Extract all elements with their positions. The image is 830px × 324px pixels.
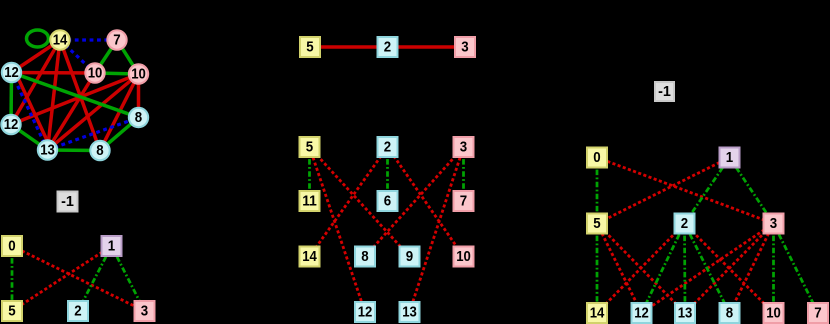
svg-text:3: 3 <box>460 139 467 156</box>
edge 10a-10b green <box>95 73 139 74</box>
rtree node 3 <box>764 214 784 234</box>
ltree node 1 <box>102 236 122 256</box>
ltree node 3 <box>135 301 155 321</box>
edge 10b-13 red <box>48 74 139 150</box>
chain node 2 <box>378 37 398 57</box>
edge 3-7 green dashdot <box>462 147 465 201</box>
svg-text:5: 5 <box>306 39 313 56</box>
edge 1-3 green dashdot <box>730 158 774 224</box>
rtree node 5 <box>587 214 607 234</box>
svg-text:2: 2 <box>384 139 391 156</box>
svg-text:-1: -1 <box>61 193 74 210</box>
svg-text:12: 12 <box>4 64 19 81</box>
edge 3-7 green dashdot <box>774 224 819 314</box>
edge 3-8 red dotted <box>730 224 774 314</box>
edge 14-12a red <box>12 40 61 73</box>
graph node 12 top <box>2 63 21 82</box>
svg-text:3: 3 <box>770 215 777 232</box>
edge 2-10 red dotted <box>685 224 774 314</box>
mtree node 12 <box>355 302 375 322</box>
ltree node 5 <box>2 301 22 321</box>
graph node 7 <box>107 30 126 49</box>
edge 5-12 red dotted <box>310 147 366 312</box>
edge 10a-13 red <box>48 73 96 150</box>
edge 3-8 red dotted <box>365 147 464 257</box>
rtree node 0 <box>587 148 607 168</box>
svg-text:12: 12 <box>634 305 649 322</box>
rtree label -1 <box>655 82 674 101</box>
svg-text:13: 13 <box>40 142 55 159</box>
svg-text:7: 7 <box>814 305 821 322</box>
rtree node 10 <box>764 303 784 323</box>
rtree node 7 <box>808 303 828 323</box>
rtree node 12 <box>632 303 652 323</box>
edge 14-10a blue dashed <box>60 40 95 73</box>
svg-text:1: 1 <box>726 149 733 166</box>
svg-text:13: 13 <box>402 304 417 321</box>
edge 12a-13 red <box>16 73 52 151</box>
edge 3-13 red dotted <box>410 147 464 312</box>
edge 2-10 red dotted <box>388 147 464 257</box>
svg-text:10: 10 <box>131 66 146 83</box>
svg-text:8: 8 <box>726 305 733 322</box>
edge 13-8a blue dashed <box>48 118 139 151</box>
rtree node 13 <box>675 303 695 323</box>
rtree node 8 <box>720 303 740 323</box>
ltree node 0 <box>2 236 22 256</box>
mtree node 5 <box>300 137 320 157</box>
edge 2-13 green dashdot <box>683 224 686 314</box>
edge 3-12 red dotted <box>642 224 774 314</box>
svg-text:-1: -1 <box>658 83 671 100</box>
svg-text:14: 14 <box>53 32 68 49</box>
edge 2-12 green dashdot <box>642 224 685 314</box>
svg-text:14: 14 <box>590 305 605 322</box>
svg-text:2: 2 <box>74 303 81 320</box>
edge 0-3 red dotted <box>12 246 145 311</box>
svg-text:8: 8 <box>361 248 368 265</box>
edge 7-10a green <box>95 40 117 73</box>
edge 12a-12b green <box>9 73 13 125</box>
svg-text:0: 0 <box>8 238 15 255</box>
edge 12a-10a red <box>12 71 96 75</box>
graph node 8 bottom <box>90 141 109 160</box>
svg-text:6: 6 <box>384 193 391 210</box>
svg-text:10: 10 <box>766 305 781 322</box>
ltree node 2 <box>68 301 88 321</box>
edge 7-10b green <box>117 40 139 74</box>
edge 12a-8a green <box>12 73 139 118</box>
edge 13-8b green <box>48 148 101 152</box>
mtree node 10 <box>454 247 474 267</box>
graph node 12 bottom <box>1 115 20 134</box>
edge 1-3 green dashdot <box>112 246 145 311</box>
edge 10b-8a red <box>137 74 141 118</box>
self-loop on 14 green <box>27 30 49 47</box>
svg-text:12: 12 <box>358 304 373 321</box>
svg-text:10: 10 <box>456 248 471 265</box>
ltree label -1 <box>58 192 78 212</box>
mtree node 3 <box>454 137 474 157</box>
svg-text:8: 8 <box>96 142 103 159</box>
svg-text:2: 2 <box>681 215 688 232</box>
svg-text:3: 3 <box>461 39 468 56</box>
edge 14-8b red <box>60 40 100 151</box>
svg-text:12: 12 <box>4 116 19 133</box>
edge 2-14 red dotted <box>310 147 388 257</box>
edge 3-10 green dashdot <box>772 224 775 314</box>
mtree node 14 <box>300 247 320 267</box>
rtree node 14 <box>587 303 607 323</box>
edge 10b-12b red <box>11 74 139 125</box>
edge 14-13 red <box>48 40 61 150</box>
edge 12b-13 green <box>11 125 48 151</box>
chain node 3 <box>455 37 475 57</box>
mtree node 2 <box>378 137 398 157</box>
rtree node 1 <box>720 148 740 168</box>
svg-text:0: 0 <box>593 149 600 166</box>
chain node 5 <box>300 37 320 57</box>
chain edge 2-3 red <box>388 45 466 49</box>
svg-text:8: 8 <box>135 109 142 126</box>
svg-text:5: 5 <box>593 215 600 232</box>
svg-text:3: 3 <box>141 303 148 320</box>
edge 2-6 green dashdot <box>386 147 389 201</box>
edge 8b-8a green <box>100 118 139 151</box>
svg-text:1: 1 <box>108 238 115 255</box>
edge 0-5 green dashdot <box>11 246 14 311</box>
edge 10b-8b red <box>100 74 139 151</box>
edge 1-2 green dashdot <box>78 246 112 311</box>
svg-text:10: 10 <box>88 65 103 82</box>
edge 1-2 green dashdot <box>685 158 730 224</box>
mtree node 6 <box>378 191 398 211</box>
graph node 10 left <box>85 63 104 82</box>
graph node 14 <box>50 30 69 49</box>
edge 14-7 blue dashed <box>60 38 117 41</box>
edge 5-13 red dotted <box>597 224 685 314</box>
svg-text:14: 14 <box>302 248 317 265</box>
edge 12a-13 blue dashed <box>12 73 48 151</box>
edge 14-12b red <box>11 40 60 125</box>
edge 2-8 green dashdot <box>685 224 730 314</box>
edge 1-5 red dotted <box>597 158 730 224</box>
rtree node 2 <box>675 214 695 234</box>
graph node 8 right <box>129 108 148 127</box>
svg-text:11: 11 <box>302 193 317 210</box>
edge 0-3 red dotted <box>597 158 774 224</box>
graph node 13 <box>38 140 57 159</box>
svg-text:7: 7 <box>460 193 467 210</box>
edge 0-5 green dashdot <box>596 158 599 224</box>
graph node 10 right <box>129 64 148 83</box>
chain edge 5-2 red <box>310 45 388 49</box>
mtree node 8 <box>355 247 375 267</box>
edge 5-9 red dotted <box>310 147 410 257</box>
edge 5-12 red dotted <box>597 224 642 314</box>
mtree node 11 <box>300 191 320 211</box>
mtree node 7 <box>454 191 474 211</box>
edge 3-13 red dotted <box>685 224 774 314</box>
mtree node 9 <box>400 247 420 267</box>
edge 1-5 red dotted <box>12 246 112 311</box>
svg-text:7: 7 <box>113 32 120 49</box>
svg-text:5: 5 <box>306 139 313 156</box>
edge 2-14 red dotted <box>597 224 685 314</box>
svg-text:2: 2 <box>384 39 391 56</box>
mtree node 13 <box>400 302 420 322</box>
edge 5-11 green dashdot <box>308 147 311 201</box>
svg-text:13: 13 <box>678 305 693 322</box>
svg-text:5: 5 <box>8 303 15 320</box>
svg-text:9: 9 <box>406 248 413 265</box>
edge 5-14 green dashdot <box>596 224 599 314</box>
